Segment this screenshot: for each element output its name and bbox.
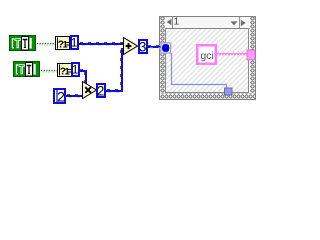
svg-text:gci: gci: [200, 50, 213, 62]
svg-text:1: 1: [71, 36, 78, 50]
svg-text:2: 2: [57, 89, 65, 105]
structure outer border line: [160, 17, 256, 100]
svg-text:1: 1: [72, 63, 79, 77]
selector decrement arrow: [167, 19, 172, 26]
svg-text:1: 1: [174, 17, 180, 28]
selector menu down arrow: [230, 21, 237, 25]
structure bottom border band (chain): [159, 93, 256, 100]
selector increment arrow: [241, 20, 246, 27]
wire node2 out, corner down to multiply top input: [80, 70, 87, 85]
value box 2 on multiply output: [97, 84, 105, 99]
value box 3 on add output: [139, 39, 147, 54]
structure interior hatched background: [166, 28, 249, 93]
boolean dotted wire terminal1 to node1: [37, 44, 55, 46]
svg-text:2: 2: [97, 84, 105, 99]
wire multiply out, up to add lower input: [106, 48, 125, 93]
boolean dotted wire terminal2 to node2: [41, 71, 57, 73]
string wavy wire to right tunnel: [217, 53, 247, 55]
structure right border band (chain): [249, 16, 256, 100]
value box 1 on node 1 output: [71, 36, 78, 50]
wire add out to structure tunnel: [148, 46, 161, 49]
selector separator line right: [239, 17, 241, 28]
wire constant 2 to multiply lower input: [66, 95, 85, 98]
right border tunnel (string): [247, 50, 255, 60]
structure left border band (chain): [159, 16, 166, 100]
svg-text:3: 3: [139, 39, 147, 54]
value box 1 on node 2 output: [72, 63, 79, 77]
wire node1 to add top input: [79, 43, 124, 46]
bottom border tunnel (dimmed): [225, 88, 233, 95]
sequence selector bar: [166, 17, 250, 29]
structure inner border line: [166, 29, 249, 93]
selector separator line left: [172, 17, 174, 28]
